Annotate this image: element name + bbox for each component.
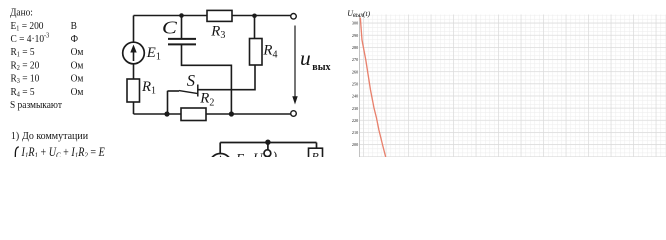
node: junction dot top rail / R4 [252,14,257,19]
svg-text:Ф: Ф [71,34,79,46]
wire: capacitor branch vertical from top rail [181,16,183,39]
svg-text:В: В [71,20,78,32]
svg-text:300: 300 [352,21,358,26]
terminal: output top [291,13,297,19]
wire: circuit2 right lead down to resistor [316,143,318,149]
wire: bottom rail [134,113,294,115]
svg-text:(t): (t) [363,9,371,18]
node: junction dot top rail / capacitor [179,13,184,18]
svg-text:I1R1 + UC + I1R2 = E: I1R1 + UC + I1R2 = E [21,146,105,157]
svg-text:Дано:: Дано: [10,7,33,19]
wire: circuit2 top rail [220,142,316,144]
equation I1R1 + UC + I1R2 = E [21,146,105,160]
svg-text:): ) [272,149,278,157]
svg-text:250: 250 [352,81,358,86]
capacitor C plates [168,38,196,40]
section heading "1) До коммутации" [11,131,89,143]
switch S right contact tick [197,85,199,97]
graph minor grid [360,15,666,158]
svg-text:R1 = 5: R1 = 5 [11,47,35,59]
graph y-axis tick labels [352,21,358,148]
terminal: output bottom [291,111,297,117]
node: circuit2 junction dot [265,140,270,145]
svg-text:210: 210 [352,130,358,135]
svg-text:S: S [187,71,195,90]
resistor R3 [207,10,232,21]
svg-text:U: U [253,151,264,158]
svg-text:Ом: Ом [71,73,84,85]
svg-text:R4 = 5: R4 = 5 [11,86,35,98]
equation system brace [15,147,18,157]
svg-text:E1 = 200: E1 = 200 [11,20,44,32]
svg-text:R2: R2 [199,91,214,109]
node: junction dot bottom rail right [229,111,234,116]
svg-text:C = 4·10-3: C = 4·10-3 [11,32,50,45]
graph major vertical gridlines [364,15,657,158]
svg-text:E1: E1 [235,151,249,157]
wire: circuit2 stem from junction to terminal [267,142,269,149]
wire: R4 bottom lead down then left to switch [198,65,255,90]
svg-text:R1: R1 [141,79,156,97]
resistor R1 [127,79,140,102]
resistor R4 [250,39,263,66]
svg-text:Ом: Ом [71,60,84,72]
wire: circuit2 left lead down to source [219,143,221,154]
svg-text:240: 240 [352,94,358,99]
svg-text:R2 = 20: R2 = 20 [11,60,40,72]
graph curve U_vyh(t) [360,18,385,158]
svg-text:200: 200 [352,142,358,147]
svg-text:u: u [300,46,311,70]
wire: switch left stub [168,90,180,92]
resistor R2 [181,108,206,121]
graph major horizontal gridlines [360,23,666,157]
source E1 [123,42,145,64]
wire: top rail [134,15,294,17]
switch S blade [179,91,198,94]
given data text block [10,7,84,111]
wire: switch left vertical to bottom rail [167,91,169,114]
svg-text:вых: вых [353,12,364,19]
svg-text:вых: вых [312,62,330,73]
svg-text:230: 230 [352,106,358,111]
terminal: circuit2 open terminal [264,150,271,157]
svg-text:C: C [162,18,178,38]
svg-text:220: 220 [352,118,358,123]
svg-text:Ом: Ом [71,47,84,59]
wire: left vertical branch [133,16,135,115]
arrow u_vyh [294,26,296,98]
svg-text:R: R [311,150,320,158]
wire: capacitor bottom lead down, right, down to bottom rail [182,45,232,114]
source E circuit2 (clipped) [210,154,232,176]
svg-text:Ом: Ом [71,86,84,98]
svg-text:S размыкают: S размыкают [10,100,63,112]
svg-text:R3: R3 [210,23,225,41]
svg-text:E1: E1 [146,45,161,62]
svg-text:1): 1) [11,131,20,143]
wire: R4 top lead [254,16,256,39]
svg-text:R4: R4 [262,43,277,61]
svg-text:270: 270 [352,57,358,62]
graph axis left edge [359,15,361,158]
svg-text:R3 = 10: R3 = 10 [11,73,40,85]
node: junction dot bottom rail left [164,111,169,116]
resistor R circuit2 (clipped) [309,148,323,161]
svg-text:280: 280 [352,45,358,50]
svg-text:290: 290 [352,33,358,38]
svg-text:До коммутации: До коммутации [22,131,88,143]
svg-text:260: 260 [352,69,358,74]
